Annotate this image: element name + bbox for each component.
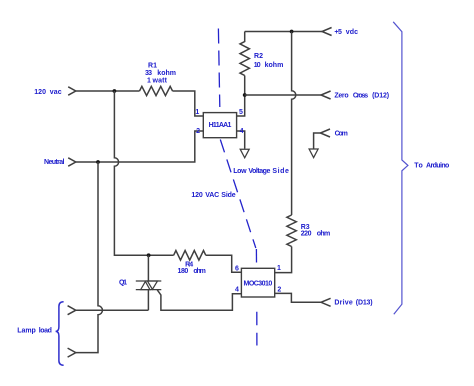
- svg-text:6: 6: [235, 265, 239, 272]
- dashed separator line (low voltage / 120 VAC boundary): [218, 29, 257, 346]
- svg-text:MOC3010: MOC3010: [244, 280, 273, 287]
- svg-text:+5: +5: [334, 29, 342, 36]
- svg-text:To: To: [414, 163, 423, 170]
- wire: neutral drop with hop to lamp bottom: [76, 162, 103, 353]
- svg-text:Side: Side: [272, 168, 289, 175]
- svg-text:kohm: kohm: [157, 70, 176, 77]
- port Com arrow: [320, 129, 330, 137]
- svg-text:Lamp: Lamp: [17, 328, 36, 335]
- port Neutral arrow: [68, 158, 76, 166]
- svg-text:120: 120: [191, 192, 202, 199]
- wire: H11AA1 pin 4 to ground arrow: [237, 131, 245, 149]
- svg-text:ohm: ohm: [317, 231, 331, 238]
- svg-text:Side: Side: [221, 192, 235, 199]
- node junction +5 rail: [290, 30, 294, 34]
- svg-text:Neutral: Neutral: [44, 159, 65, 166]
- wire: R4 to MOC3010 pin 6: [206, 255, 242, 272]
- svg-text:H11AA1: H11AA1: [209, 122, 232, 129]
- wire: zero cross rail: [245, 94, 321, 96]
- svg-text:(D13): (D13): [356, 299, 373, 306]
- svg-text:Cross: Cross: [353, 92, 368, 99]
- svg-text:vdc: vdc: [346, 29, 358, 36]
- wire: triac gate to MOC3010 pin 4: [157, 290, 241, 310]
- port Drive arrow: [321, 298, 331, 306]
- svg-text:33: 33: [145, 70, 152, 77]
- node junction hot rail: [113, 89, 117, 93]
- ground symbol com: [309, 149, 318, 158]
- svg-text:10: 10: [254, 62, 261, 69]
- chip U2 MOC3010 box: [241, 268, 274, 297]
- svg-text:Zero: Zero: [334, 92, 348, 99]
- wire: +5 junction down with hop, to R3: [292, 32, 296, 216]
- svg-text:Com: Com: [335, 131, 348, 138]
- svg-text:load: load: [39, 328, 52, 335]
- wire: R3 to MOC3010 pin 1: [275, 247, 292, 273]
- wire: MOC3010 pin 2 to drive port: [275, 293, 321, 302]
- svg-text:vac: vac: [50, 89, 62, 96]
- svg-text:4: 4: [235, 286, 239, 293]
- wire: 120 vac to R1: [76, 90, 140, 92]
- svg-text:(D12): (D12): [372, 92, 389, 99]
- node junction neutral: [96, 160, 100, 164]
- svg-text:R2: R2: [254, 53, 263, 60]
- transistor Q1 triac: [136, 255, 162, 310]
- svg-text:Arduino: Arduino: [426, 163, 449, 170]
- node junction zero cross: [243, 93, 247, 97]
- svg-text:1: 1: [195, 109, 199, 116]
- port lamp bottom arrow: [68, 348, 76, 357]
- svg-text:1: 1: [277, 265, 281, 272]
- svg-text:5: 5: [239, 109, 243, 116]
- wire: H11AA1 pin 2 to neutral rail: [76, 131, 204, 162]
- node junction triac MT2 / R4 rail: [147, 253, 151, 257]
- wire: R1 to H11AA1 pin 1: [173, 91, 204, 116]
- svg-text:ohm: ohm: [193, 268, 206, 275]
- resistor R1: [140, 86, 173, 95]
- wire: +5 vdc rail: [245, 31, 322, 33]
- port +5 vdc arrow: [322, 28, 332, 36]
- wire: hot vertical with hop over neutral, down to triac rail: [114, 91, 173, 255]
- svg-text:1: 1: [147, 78, 151, 85]
- wire: com to ground symbol: [314, 133, 321, 149]
- svg-text:2: 2: [196, 128, 200, 135]
- svg-text:VAC: VAC: [205, 192, 219, 199]
- wire: lamp top to triac MT1: [76, 309, 149, 311]
- port 120 vac arrow: [68, 87, 76, 95]
- optocoupler U1 H11AA1 box: [203, 113, 236, 138]
- resistor R2: [240, 32, 249, 76]
- resistor R4: [174, 251, 206, 261]
- svg-text:4: 4: [240, 128, 244, 135]
- svg-text:Low: Low: [233, 168, 247, 175]
- port lamp top arrow: [68, 306, 76, 315]
- svg-text:2: 2: [277, 286, 281, 293]
- svg-text:180: 180: [178, 268, 189, 275]
- ground symbol below H11AA1 pin 4: [240, 149, 249, 158]
- svg-text:120: 120: [34, 89, 46, 96]
- svg-text:Q1: Q1: [119, 280, 127, 287]
- svg-text:Voltage: Voltage: [248, 168, 270, 175]
- svg-text:220: 220: [301, 231, 312, 238]
- brace lamp load: [56, 302, 64, 365]
- bracket To Arduino: [393, 22, 408, 314]
- resistor R3: [287, 215, 296, 247]
- svg-text:R1: R1: [148, 63, 157, 70]
- svg-text:watt: watt: [152, 78, 168, 85]
- svg-text:kohm: kohm: [265, 62, 284, 69]
- svg-text:Drive: Drive: [334, 299, 352, 306]
- wire: R2 bottom to H11AA1 pin 5: [237, 76, 245, 117]
- port Zero Cross arrow: [321, 91, 331, 99]
